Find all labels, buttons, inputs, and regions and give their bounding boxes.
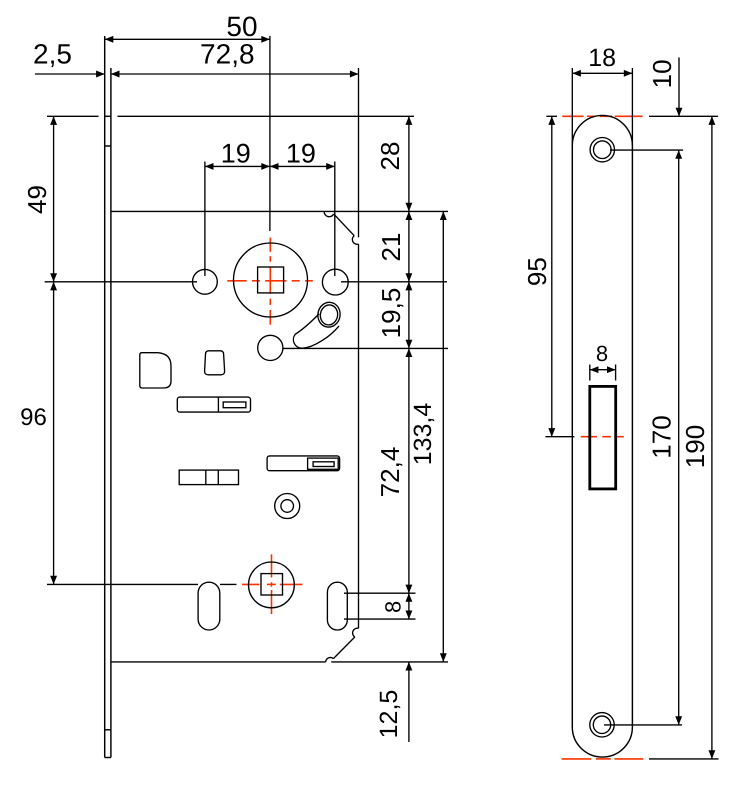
dim 72,4 arrow bottom — [405, 585, 412, 594]
dim 190 arrow bottom — [708, 750, 715, 759]
faceplate red centerline y=437 — [581, 436, 624, 438]
ext line x=335 down to right hole — [334, 162, 336, 277]
faceplate strip right edge — [110, 68, 112, 758]
top screw hole inner — [594, 141, 612, 159]
dim 19,5 arrow bottom — [405, 340, 412, 349]
ext line y=593 slot top tangent — [344, 592, 416, 594]
slider assembly C mid rect — [308, 458, 339, 469]
ext line y=282 hole axis left — [45, 281, 197, 283]
latch pawl ring inner — [319, 304, 339, 327]
ext line 95 bottom tick — [545, 436, 574, 438]
dim 8 arrow left — [590, 366, 599, 373]
dim 170 line — [678, 150, 680, 725]
dim 8 arrow right — [607, 366, 616, 373]
faceplate red centerline y=759 — [562, 758, 644, 760]
dim 8 line right view — [590, 369, 616, 371]
svg-text:72,4: 72,4 — [375, 447, 405, 498]
dim 10 line — [678, 57, 680, 116]
dim 28 line — [408, 116, 410, 211]
ext line slot right up — [615, 365, 617, 381]
faceplate left edge — [571, 146, 573, 728]
faceplate top arc — [572, 115, 632, 145]
slider assembly C outer — [267, 456, 340, 471]
dim 21 arrow top — [405, 211, 412, 220]
dim 96 line — [53, 282, 55, 585]
dim 19,5 line — [408, 282, 410, 349]
dim 95 arrow bottom — [548, 428, 555, 437]
case bottom chamfer diagonal — [333, 637, 354, 659]
ext line slot left up — [589, 365, 591, 381]
svg-text:8: 8 — [596, 341, 608, 366]
ext line y=725 bottom hole axis — [604, 724, 682, 726]
dim 170 arrow bottom — [675, 716, 682, 725]
svg-text:19,5: 19,5 — [376, 288, 406, 339]
trapezoid component — [205, 351, 225, 375]
svg-text:19: 19 — [221, 139, 251, 169]
dim 28 arrow bottom — [405, 203, 412, 212]
dim 18 arrow left — [572, 70, 581, 77]
slider assembly B divider 1 — [205, 470, 207, 485]
slider assembly A outer — [177, 397, 250, 412]
case right edge upper notch — [352, 236, 358, 245]
rounded square component — [140, 353, 171, 388]
svg-text:49: 49 — [22, 185, 52, 214]
dim 18 line — [572, 72, 632, 74]
case right edge main — [358, 244, 360, 628]
case bottom edge notch — [326, 658, 334, 662]
ring component outer — [275, 494, 300, 519]
dim 21 arrow bottom — [405, 273, 412, 282]
dim 72,8 arrow right — [350, 71, 359, 78]
slider assembly A inner rect — [223, 402, 246, 408]
case right edge upper (with extension above) — [358, 68, 360, 237]
slider assembly B divider 2 — [217, 470, 219, 485]
dim 8 arrow bottom — [405, 611, 412, 620]
top screw hole outer — [590, 138, 614, 162]
ext line y=150 hole axis — [610, 149, 683, 151]
faceplate strip tick upper — [105, 145, 111, 147]
dim 170 arrow top — [675, 150, 682, 159]
dim 8 arrow top — [405, 593, 412, 602]
dim 10 arrow — [676, 108, 683, 117]
dim 190 arrow top — [708, 116, 715, 125]
ring component inner — [281, 500, 294, 513]
case top edge — [111, 210, 448, 212]
svg-text:95: 95 — [522, 257, 552, 286]
dim 72,8 arrow left — [111, 71, 120, 78]
bottom hub square — [261, 574, 283, 595]
dim 28 arrow top — [405, 116, 412, 125]
dim 19,5 arrow top — [405, 282, 412, 291]
ext line y=282 hole axis right — [341, 281, 447, 283]
ext line x=572 above plate — [571, 68, 573, 145]
bottom screw hole inner — [593, 716, 610, 733]
dim 96 arrow top — [50, 282, 57, 291]
dim 50 line — [105, 38, 270, 40]
left fixing hole — [193, 269, 218, 294]
slider assembly C inner rect — [313, 462, 334, 467]
dim 2,5 arrow — [96, 71, 105, 78]
ext line 95 top tick — [546, 115, 557, 117]
dim 49 arrow bottom — [50, 273, 57, 282]
slider assembly A divider — [217, 397, 219, 412]
faceplate strip top cap — [105, 115, 111, 117]
dim 50 arrow left — [105, 36, 114, 43]
ext line x=632 above plate — [631, 68, 633, 145]
ext line y=584 hub axis left — [47, 583, 198, 585]
dim 49 line — [53, 116, 55, 281]
dim 95 arrow top — [548, 116, 555, 125]
svg-text:190: 190 — [680, 425, 710, 468]
case bottom edge left part — [111, 661, 326, 663]
ext line y=116 top of faceplate right — [118, 115, 415, 117]
dim 72,4 line — [408, 348, 410, 593]
svg-text:50: 50 — [226, 11, 257, 42]
svg-text:10: 10 — [647, 59, 677, 88]
dim 19 left line — [205, 165, 335, 167]
hub red centerline horizontal — [242, 583, 302, 585]
dim 50 arrow right — [261, 36, 270, 43]
svg-text:19: 19 — [286, 139, 316, 169]
svg-text:8: 8 — [381, 601, 406, 613]
dim 8 line left view — [408, 593, 410, 619]
ext line y=619 slot bottom tangent — [344, 618, 416, 620]
svg-text:18: 18 — [588, 44, 616, 72]
spindle square hole — [258, 267, 284, 293]
dim 133,4 arrow bottom — [440, 653, 447, 662]
dim 19 arrow far left — [205, 163, 214, 170]
dim 19 arrow far right — [326, 163, 335, 170]
dim 18 arrow right — [624, 70, 633, 77]
dim 12,5 arrow — [405, 662, 412, 671]
bottom screw hole outer — [590, 713, 614, 737]
spindle rosette circle — [234, 243, 308, 317]
dim 12,5 line — [408, 662, 410, 742]
small circle below spindle — [258, 335, 283, 360]
case right edge lower notch — [353, 628, 359, 637]
case top edge notch — [324, 211, 334, 216]
svg-text:170: 170 — [647, 415, 677, 458]
left oval slot — [198, 582, 220, 630]
svg-text:72,8: 72,8 — [200, 39, 255, 70]
svg-text:21: 21 — [376, 233, 406, 262]
faceplate red centerline y=116 — [562, 115, 642, 117]
right oval slot — [327, 582, 347, 630]
svg-text:12,5: 12,5 — [375, 690, 403, 739]
svg-text:133,4: 133,4 — [409, 403, 437, 466]
ext line y=116 top of faceplate left — [47, 115, 99, 117]
faceplate strip tick lower — [105, 729, 111, 731]
right fixing hole — [322, 269, 348, 295]
dim 72,4 arrow top — [405, 348, 412, 357]
case bottom edge right part — [331, 661, 448, 663]
slider assembly B outer (3 cells) — [179, 470, 238, 485]
dim 2,5 leader line — [35, 73, 105, 75]
dim 49 arrow top — [50, 116, 57, 125]
magnet slot — [590, 386, 616, 489]
spindle red centerline vertical — [269, 238, 271, 325]
dim 72,8 line — [111, 73, 359, 75]
faceplate bottom arc — [572, 727, 632, 757]
hub red centerline vertical — [271, 554, 273, 614]
svg-text:28: 28 — [375, 142, 405, 171]
case top chamfer diagonal — [334, 214, 355, 236]
bottom hub circle — [249, 562, 295, 608]
latch pawl body — [293, 314, 339, 348]
dim 19 arrows centre — [261, 163, 270, 170]
latch pawl ring outer — [316, 301, 342, 329]
ext line y=116 right of plate — [649, 115, 718, 117]
faceplate right edge — [631, 146, 633, 728]
dim 133,4 arrow top — [440, 211, 447, 220]
ext line x=270 from 50-dim down — [269, 36, 271, 231]
dim 95 line — [551, 116, 553, 436]
dim 21 line — [408, 211, 410, 281]
spindle red centerline horizontal — [227, 280, 312, 282]
faceplate strip left edge — [104, 36, 106, 758]
svg-text:96: 96 — [20, 404, 47, 431]
ext line y=584 hub axis mid — [220, 583, 237, 585]
svg-text:2,5: 2,5 — [33, 39, 72, 70]
dim 190 line — [711, 116, 713, 759]
faceplate strip bottom cap — [105, 757, 111, 759]
dim 96 arrow bottom — [50, 576, 57, 585]
ext line x=205 down to left hole — [204, 162, 206, 277]
ext line y=348 small circle axis — [283, 347, 448, 349]
ext line y=759 bottom — [649, 758, 719, 760]
dim 133,4 line — [442, 211, 444, 662]
